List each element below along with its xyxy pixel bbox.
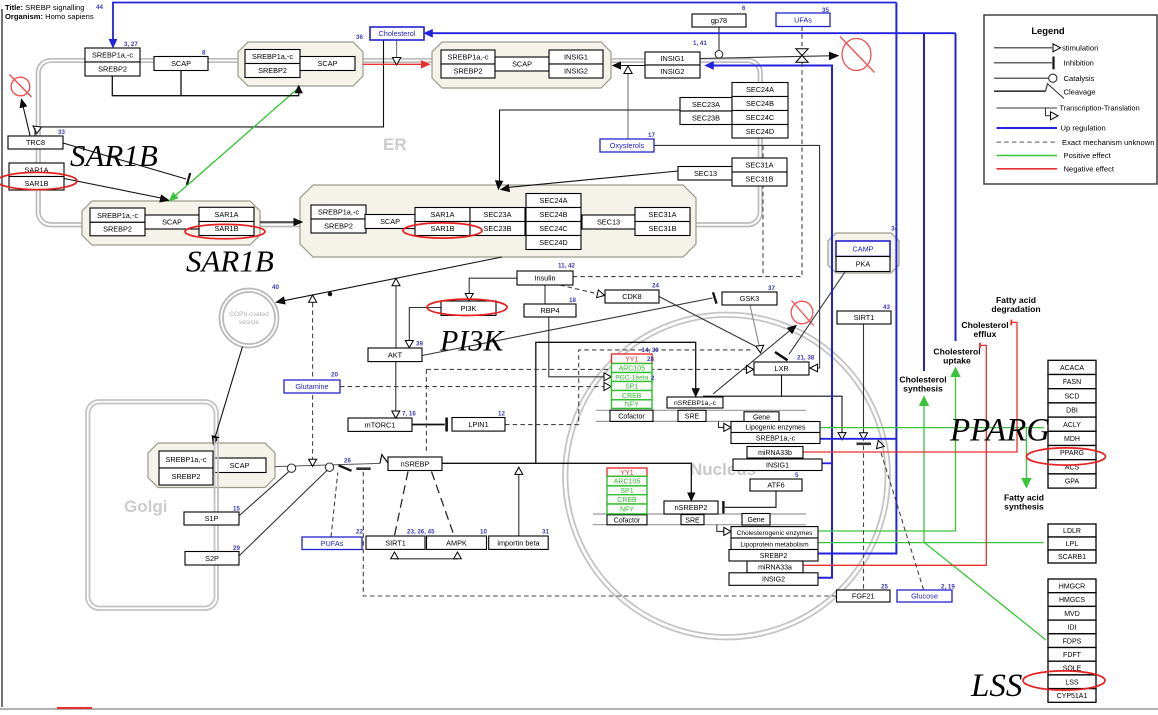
metabolite box Glucose [897,590,952,602]
svg-text:ARC105: ARC105 [614,479,641,486]
wire LXR to nSREBP1a and SREBP1a gene [703,375,782,396]
svg-text:PI3K: PI3K [461,304,477,313]
svg-text:COPII coated: COPII coated [229,311,269,318]
red wire miRNA33a inhibits cholesterol uptake [803,345,986,565]
gene box AKT [368,348,422,362]
svg-text:CYP51A1: CYP51A1 [1057,693,1088,700]
degradation symbol (red crossed circle) nucleus [791,301,813,324]
catalysis circle gp78 [715,51,723,59]
svg-text:MVD: MVD [1064,611,1080,618]
gene box SEC13 (complex4) [582,215,635,229]
wire INSIG to degradation [700,56,830,59]
svg-text:SREBP1a,-c: SREBP1a,-c [97,211,138,220]
svg-text:PUFAs: PUFAs [321,539,344,548]
COPII coated vesicle (double circle) [220,289,279,348]
svg-text:SREBP1a,-c: SREBP1a,-c [448,53,489,62]
svg-text:SP1: SP1 [625,384,638,391]
gene box YY1 (stack1) [612,354,653,364]
blue up-regulation top line [113,3,896,40]
svg-text:SREBP1a,-c: SREBP1a,-c [252,52,293,61]
gene box IDI [1048,620,1096,634]
legend Cleavage [994,90,1046,92]
gene box SIRT1 (cytosol) [366,536,425,549]
svg-text:Cleavage: Cleavage [1064,88,1096,97]
svg-text:SEC24C: SEC24C [746,113,774,122]
gene box SREBP1a,-c (complex1) [245,50,300,64]
label box SRE (DNA row 1) [678,410,706,421]
svg-text:2, 19: 2, 19 [941,584,955,591]
svg-text:NFY: NFY [620,507,634,514]
blue vertical to Cholesterol-synthesis [923,33,925,371]
svg-text:FDPS: FDPS [1063,638,1082,645]
complex octagon SREBP-SCAP (ER top) [238,42,363,86]
legend Transcription-Translation [997,107,1058,109]
svg-text:GSK3: GSK3 [740,294,759,303]
svg-text:SIRT1: SIRT1 [854,313,875,322]
blue wire to Cholesterol [431,32,956,34]
gene box MDH [1048,431,1096,445]
gene box SCARB1 [1048,550,1096,563]
svg-text:stimulation: stimulation [1062,44,1098,53]
svg-text:efflux: efflux [974,329,997,339]
degradation symbol (red crossed circle) top-left [11,77,30,96]
ER membrane (double rounded rect) [37,59,763,227]
svg-text:Exact mechanism unknown: Exact mechanism unknown [1062,138,1154,147]
gene box Lipoprotein metabolism [731,538,818,550]
gene box SEC24C [732,111,788,125]
wire COPII vesicle to Golgi complex [215,347,243,438]
catalysis circle S2P [325,463,333,471]
svg-text:SEC23B: SEC23B [484,224,512,233]
gene box Insulin [517,271,573,285]
svg-text:SREBP1a,-c: SREBP1a,-c [92,51,133,60]
svg-text:8: 8 [202,50,206,57]
gene box nSREBP2 [664,501,718,514]
gene box SREBP2 (complex4) [311,219,366,233]
gene box INSIG1 [645,52,700,65]
svg-text:INSIG2: INSIG2 [762,577,785,584]
metabolite box UFAs [776,13,830,27]
svg-text:SEC13: SEC13 [694,169,717,178]
gene box nSREBP [388,457,442,471]
gene box RBP4 [524,304,576,317]
gene box SCAP (complex2) [495,57,549,71]
green diagonal to cholesterol-synthesis genes [925,543,1047,640]
svg-text:SCAP: SCAP [171,59,191,68]
gene box CREB (stack1) [612,391,653,400]
gene box PGC-1beta (stack1) [612,373,653,382]
svg-text:miRNA33b: miRNA33b [758,450,792,457]
complex octagon SREBP-SCAP-INSIG [432,42,611,88]
svg-text:29: 29 [233,545,240,552]
svg-text:1, 41: 1, 41 [693,40,707,47]
svg-text:SCARB1: SCARB1 [1058,554,1086,561]
svg-text:31: 31 [542,529,549,536]
svg-text:21, 38: 21, 38 [797,355,815,362]
svg-text:SEC23B: SEC23B [692,113,720,122]
svg-text:S1P: S1P [205,514,219,523]
gene box FDPS [1048,634,1096,648]
metabolite box Glutamine [284,380,340,393]
svg-text:SREBP1a,-c: SREBP1a,-c [318,208,359,217]
legend stimulation [994,47,1052,49]
svg-text:SEC24C: SEC24C [539,224,567,233]
wire complex to COPII vesicle [284,257,502,301]
legend Exact mechanism unknown [997,141,1058,143]
svg-text:FGF21: FGF21 [852,592,875,601]
svg-text:FASN: FASN [1063,379,1081,386]
svg-text:Glutamine: Glutamine [295,382,328,391]
svg-text:22: 22 [356,529,363,536]
gene box INSIG1 (complex2) [549,50,603,64]
gene box SEC23B [680,111,732,125]
svg-text:Insulin: Insulin [534,274,555,283]
svg-text:INSIG1: INSIG1 [766,462,789,469]
gene box HMGCS [1048,593,1096,607]
label box SRE (DNA row 2) [681,515,704,525]
svg-text:DBI: DBI [1066,408,1078,415]
svg-text:SEC23A: SEC23A [484,210,512,219]
wire GSK3 down [750,305,759,345]
gene box ARC105 (stack2) [607,476,647,486]
wire AKT inhibits GSK3 [422,298,713,356]
svg-text:NFY: NFY [625,402,639,409]
gene box SEC31A (complex4) [635,208,690,222]
svg-text:Catalysis: Catalysis [1064,74,1095,83]
wire TRC8 inhibition [63,143,186,179]
svg-text:15: 15 [233,506,240,513]
cleavage zigzag before nSREBP [380,455,391,467]
svg-text:SCAP: SCAP [230,461,250,470]
gene box ATF6 [750,479,802,491]
svg-text:AMPK: AMPK [446,538,467,547]
svg-text:miRNA33a: miRNA33a [758,565,792,572]
legend Positive effect [997,155,1058,157]
gene box SAR1B (complex3) [199,222,254,236]
svg-text:uptake: uptake [943,356,971,366]
svg-text:synthesis: synthesis [1004,502,1044,512]
label box Cofactor (DNA row 2) [607,515,647,525]
Nucleus (double circle) [563,313,890,640]
green positive-effect wire (SAR1B transport) [175,88,299,197]
metabolite box Cholesterol [370,27,424,40]
gene box SAR1A (complex4) [415,208,470,222]
wire RBP4 to PGC-1beta [549,317,604,377]
svg-text:35: 35 [822,7,829,14]
gene box SP1 (stack2) [607,486,647,495]
gene box SEC23B (complex4) [470,222,525,236]
anchor dot [328,292,333,297]
svg-text:GPA: GPA [1065,479,1080,486]
gene box S1P [184,512,239,525]
svg-text:SREBP2: SREBP2 [103,225,132,234]
svg-text:degradation: degradation [991,304,1040,314]
wire SEC13 to COPII complex [509,171,678,187]
gene box ACACA [1048,360,1096,374]
label box Gene (DNA row 2) [742,514,770,526]
gene box NFY (stack1) [612,400,653,409]
svg-text:28: 28 [647,356,654,363]
wire AKT up to vesicle route [395,286,397,349]
green wire fatty acid synthesis [1025,428,1027,479]
svg-text:LPL: LPL [1066,541,1079,548]
wire TRC8 to membrane [34,128,36,136]
svg-text:PGC-1beta: PGC-1beta [615,375,648,382]
dashed Glutamine vertical [312,303,314,459]
gene box GSK3 [722,292,777,305]
red stub bottom-left [57,707,92,709]
wire mTORC1 inhibits LPIN1 [412,424,445,426]
svg-text:LPIN1: LPIN1 [468,420,488,429]
blue vertical to Cholesterol-uptake [955,33,957,341]
svg-text:INSIG1: INSIG1 [564,53,588,62]
complex octagon SREBP-SCAP-SAR1 (ER bottom left) [82,201,260,245]
gene box SEC23A [680,98,732,112]
svg-text:SEC24B: SEC24B [746,99,774,108]
svg-text:44: 44 [96,4,103,11]
svg-text:Golgi: Golgi [124,497,167,516]
svg-text:SAR1A: SAR1A [431,210,455,219]
annotation ellipse SAR1B complex3 [185,224,265,238]
dashed PUFAs [331,473,338,537]
svg-text:CREB: CREB [622,393,642,400]
svg-text:INSIG2: INSIG2 [564,67,588,76]
legend Inhibition [994,62,1052,64]
gene box FDFT [1048,648,1096,662]
svg-text:mTORC1: mTORC1 [365,420,396,429]
gene box SAR1B (complex4) [415,222,470,236]
wire ATF6 inhibits nSREBP2 [725,491,776,507]
red negative-effect arrow (cholesterol retention) [363,63,422,65]
gene box SREBP1a,-c (complex4) [311,205,366,219]
cleavage mark [339,465,352,471]
svg-text:Lipoprotein metabolism: Lipoprotein metabolism [740,541,809,548]
svg-text:nSREBP: nSREBP [401,459,430,468]
wire Golgi cleavage line [275,463,381,466]
gene box SREBP2 (complex1) [245,64,300,78]
metabolite box CAMP [836,241,890,257]
gene box SEC24A [732,83,788,97]
gene box PPARG [1048,446,1096,460]
svg-text:26: 26 [344,458,351,465]
svg-text:24: 24 [652,283,659,290]
svg-text:SIRT1: SIRT1 [385,538,406,547]
svg-text:CAMP: CAMP [852,244,873,253]
wire PKA inhibits LXR [789,272,845,354]
gene box SEC24C (complex4) [526,222,581,236]
gene box NFY (stack2) [607,504,647,514]
page bottom border [0,708,1158,710]
annotation ellipse PI3K [427,299,507,315]
gene box miRNA33a [747,561,803,573]
svg-text:SREBP2: SREBP2 [454,67,483,76]
gene box SP1 (stack1) [612,382,653,391]
dashed vertical branch [762,146,764,277]
svg-text:IDI: IDI [1068,625,1077,632]
svg-text:ATF6: ATF6 [767,481,784,490]
svg-text:6: 6 [742,5,746,12]
dashed SIRT1-bar to FGF21 [863,446,865,590]
svg-text:ARC105: ARC105 [619,366,646,373]
svg-text:ER: ER [383,135,407,154]
svg-text:SEC24A: SEC24A [540,196,568,205]
metabolite box Oxysterols [600,139,654,152]
svg-text:5: 5 [795,472,799,479]
gene box S2P [185,552,239,566]
blue vertical SREBP2-gene loop [818,3,896,554]
red wire miRNA33b inhibits cholesterol efflux [803,322,1017,452]
blue wire INSIG1-gene [822,462,832,464]
svg-text:SREBP1a,-c: SREBP1a,-c [756,436,796,443]
gene box SCD [1048,389,1096,403]
degradation symbol (red crossed circle) top-right [842,39,871,71]
wire SIRT1 down to DNA [863,324,865,433]
complex octagon SREBP-SCAP (Golgi) [148,443,275,488]
gene box SCAP (complex1) [300,57,355,71]
wire SAR1-complex to COPII-complex [260,221,295,223]
svg-text:nSREBP2: nSREBP2 [675,503,708,512]
gene box SEC31A [732,158,787,172]
svg-text:37: 37 [768,285,775,292]
svg-text:SAR1B: SAR1B [25,179,49,188]
svg-text:34: 34 [891,226,898,233]
svg-text:SEC31B: SEC31B [746,175,774,184]
svg-text:HMGCS: HMGCS [1059,597,1085,604]
svg-text:14, 30: 14, 30 [642,347,660,354]
gene box SAR1A (complex3) [199,207,254,221]
gene box nSREBP1a,-c [667,397,723,408]
svg-text:vesicle: vesicle [239,319,259,326]
svg-text:Up regulation: Up regulation [1061,124,1106,133]
svg-text:SCAP: SCAP [162,218,182,227]
gene box SREBP2 (complex3) [90,222,145,236]
gene box SREBP2 (gene) [729,550,818,562]
transcription elbow row 1 [719,421,724,427]
svg-text:SAR1B: SAR1B [431,224,455,233]
svg-text:17: 17 [648,132,655,139]
gene box SQLE [1048,661,1096,675]
gene box gp78 [692,14,746,27]
svg-text:CREB: CREB [617,497,637,504]
metabolite box PUFAs [302,537,362,550]
svg-text:Inhibition: Inhibition [1064,59,1094,68]
legend Up regulation [997,127,1058,129]
svg-text:YY1: YY1 [625,356,638,363]
gene box SCAP (complex4) [365,215,415,229]
complex octagon COPII assembly (big) [300,185,696,257]
svg-text:SRE: SRE [685,414,700,421]
svg-text:Cholesterogenic enzymes: Cholesterogenic enzymes [737,530,814,537]
gene box LXR [754,362,809,375]
wire Insulin to PI3K [469,278,517,293]
gene box SEC24A (complex4) [526,194,581,208]
dashed Insulin to CDK8 [560,285,598,294]
svg-text:43: 43 [883,304,890,311]
gene box SREBP2 (complex2) [441,64,495,78]
gene box SREBP1a,-c (complex3) [90,208,145,222]
gene box SREBP1a,-c (ER free) [85,48,140,62]
svg-text:CDK8: CDK8 [622,292,641,301]
svg-text:Gene: Gene [753,414,770,421]
Golgi membrane over complex [217,438,219,497]
svg-text:INSIG2: INSIG2 [661,67,685,76]
svg-text:20: 20 [331,372,338,379]
svg-text:Lipogenic enzymes: Lipogenic enzymes [746,425,806,432]
svg-text:SREBP2: SREBP2 [258,66,287,75]
wire nSREBP to nSREBP1a (elbow) [536,342,696,463]
svg-text:Legend: Legend [1031,25,1065,36]
blue wire SREBP1a-gene [821,438,897,440]
svg-text:Cofactor: Cofactor [614,517,641,524]
gene box mTORC1 [348,418,412,431]
svg-text:11, 42: 11, 42 [558,263,575,270]
svg-text:SEC13: SEC13 [597,218,620,227]
gene box FASN [1048,375,1096,389]
svg-text:7, 16: 7, 16 [402,411,416,418]
svg-text:ACACA: ACACA [1060,365,1084,372]
svg-text:RBP4: RBP4 [540,306,559,315]
dashed FGF21 to cleavage [363,472,836,596]
dashed nSREBP to SIRT1/AMPK [395,472,409,536]
gene box SEC24B (complex4) [526,208,581,222]
UFAs anchor bowtie [796,49,808,56]
svg-text:Oxysterols: Oxysterols [610,141,645,150]
svg-text:AKT: AKT [388,350,403,359]
DNA line row 2 [593,513,806,515]
green wire lipoprotein metabolism / cholesterol synthesis / LPL [818,542,1044,544]
green wire lipogenic enzymes to gene stack [821,427,1045,429]
wire Insulin to RBP4 [544,285,546,304]
annotation ellipse PPARG [1027,448,1106,465]
svg-text:SREBP2: SREBP2 [324,222,353,231]
svg-text:SCD: SCD [1065,393,1080,400]
gene box SAR1A [9,163,64,177]
svg-text:PI3K: PI3K [439,325,505,358]
gene box TRC8 [8,136,63,149]
svg-text:PPARG: PPARG [949,413,1050,449]
svg-text:LSS: LSS [970,668,1022,704]
svg-text:10: 10 [480,529,487,536]
gene box SCAP (Golgi complex) [213,458,266,473]
DNA line row 1 [596,409,806,411]
gene box GPA [1048,474,1096,488]
gene box importin beta [489,536,549,549]
svg-text:SEC31A: SEC31A [746,161,774,170]
svg-text:PPARG: PPARG [1060,450,1084,457]
svg-text:40: 40 [272,284,279,291]
wire TRC8 to degradation [23,106,30,136]
wire AKT to mTORC1 [395,362,397,412]
gene box LPL [1048,537,1096,550]
gene box CDK8 [605,290,659,303]
svg-text:SP1: SP1 [620,488,633,495]
complex octagon CAMP-PKA [828,233,899,273]
svg-text:23, 26, 45: 23, 26, 45 [407,529,435,536]
svg-text:2: 2 [651,375,655,382]
svg-text:Negative effect: Negative effect [1064,165,1115,174]
svg-text:SREBP2: SREBP2 [760,553,788,560]
gene box CYP51A1 [1048,689,1096,703]
svg-text:25: 25 [881,584,888,591]
stimulation arrowhead into ER left [33,126,41,134]
page left border [1,9,3,707]
svg-text:FDFT: FDFT [1063,652,1082,659]
svg-text:SEC24B: SEC24B [540,210,568,219]
svg-text:SEC31B: SEC31B [649,224,677,233]
legend box [984,15,1157,184]
svg-text:SEC24A: SEC24A [746,85,774,94]
label box Gene (DNA row 1) [744,412,779,422]
